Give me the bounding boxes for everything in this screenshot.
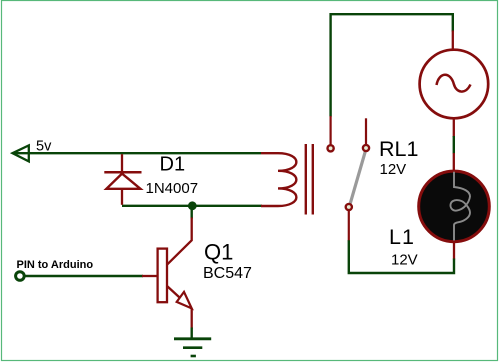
wire to switch pole (green) bbox=[331, 14, 453, 116]
pin stub base bbox=[142, 275, 157, 277]
pin stub switch left bbox=[330, 116, 332, 145]
wire lamp to switch bottom bbox=[349, 240, 454, 273]
svg-text:12V: 12V bbox=[380, 161, 407, 178]
wire junction to collector bbox=[190, 206, 192, 219]
svg-text:12V: 12V bbox=[391, 252, 418, 269]
node junction dot bbox=[188, 201, 197, 210]
transistor emitter arrow bbox=[177, 292, 192, 309]
terminal arrow 5v bbox=[13, 145, 29, 161]
ground bbox=[174, 339, 211, 356]
svg-text:RL1: RL1 bbox=[379, 137, 418, 161]
pin stub switch common bbox=[365, 118, 367, 144]
lamp L1 bbox=[419, 171, 490, 242]
wire emitter to ground bbox=[190, 328, 192, 339]
svg-text:5v: 5v bbox=[36, 139, 52, 155]
relay core line 2 bbox=[312, 144, 314, 215]
pin stub lamp top bbox=[453, 153, 455, 172]
transistor Q1 base bar bbox=[158, 249, 167, 303]
lamp filament bbox=[450, 172, 470, 241]
pin stub AC bottom bbox=[453, 118, 455, 137]
svg-text:PIN to Arduino: PIN to Arduino bbox=[17, 259, 94, 271]
relay core line 1 bbox=[305, 144, 307, 215]
svg-text:Q1: Q1 bbox=[204, 240, 233, 265]
pin stub lamp bottom bbox=[453, 242, 455, 260]
AC sine symbol bbox=[437, 75, 471, 92]
pin stub AC top bbox=[452, 31, 454, 51]
terminal node circle bbox=[16, 272, 25, 281]
switch contact bottom bbox=[346, 204, 352, 210]
relay coil RL1 bbox=[261, 153, 296, 206]
transistor emitter line bbox=[167, 286, 192, 309]
switch lever bbox=[350, 152, 365, 204]
svg-text:L1: L1 bbox=[389, 225, 415, 249]
diode D1 bbox=[104, 154, 141, 205]
wire bottom rail (diode to coil) bbox=[122, 205, 262, 207]
pin stub collector bbox=[167, 218, 192, 265]
AC source V1 bbox=[420, 50, 489, 119]
svg-text:BC547: BC547 bbox=[203, 265, 252, 282]
wire base (PIN to Arduino) bbox=[25, 275, 143, 277]
svg-text:D1: D1 bbox=[160, 154, 186, 176]
switch contact common bbox=[363, 145, 369, 151]
wire 5v rail top bbox=[14, 152, 261, 154]
wire AC to lamp bbox=[453, 136, 455, 154]
svg-text:1N4007: 1N4007 bbox=[146, 180, 199, 197]
switch contact left bbox=[328, 145, 334, 151]
pin stub emitter bbox=[191, 309, 193, 329]
pin stub switch bottom bbox=[348, 211, 350, 242]
